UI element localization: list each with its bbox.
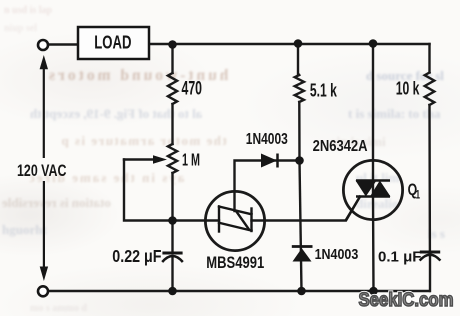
node junction dot (5.1k top): [294, 39, 303, 48]
wire column4 (rail through 5.1 k, D2, to bottom rail): [297, 44, 299, 75]
wire column2 (470 to pot R2): [171, 104, 173, 144]
svg-text:5.1 k: 5.1 k: [310, 81, 337, 101]
SBS U1 symbol body: [219, 207, 252, 232]
node junction dot (triac column top): [369, 39, 378, 48]
wire column2 (pot to C1): [171, 173, 173, 251]
wire top rail (LOAD to top-right corner): [149, 43, 430, 45]
LOAD box: [78, 27, 149, 59]
capacitor C2 0.1 uF: [420, 252, 441, 261]
svg-text:10 k: 10 k: [396, 79, 420, 99]
svg-text:MBS4991: MBS4991: [206, 254, 264, 273]
resistor R3 5.1 k zigzag: [295, 75, 304, 102]
svg-text:0.22 μF: 0.22 μF: [112, 248, 161, 267]
resistor R1 470 zigzag: [168, 73, 177, 104]
wire diode D1 branch (corner above SBS to node C): [235, 161, 300, 212]
terminal (top input): [38, 40, 48, 50]
SBS U1 circle: [205, 191, 264, 250]
svg-text:1 M: 1 M: [182, 151, 200, 170]
wire column5 triac MT2 (top rail to triac): [372, 44, 374, 197]
wire bottom rail: [49, 290, 430, 292]
watermark SeekIC.com: [359, 289, 454, 310]
wire column2 lower (C1 to bottom rail): [171, 256, 173, 291]
node B junction dot (pot return): [168, 216, 177, 225]
resistor R4 10 k zigzag: [425, 73, 435, 106]
potentiometer wiper arm wire: [124, 158, 155, 160]
node junction dot (D2 bottom rail): [297, 287, 306, 296]
faint show-through page text (decorative background): [4, 5, 52, 16]
wire right column lower (C2 to bottom rail): [429, 255, 431, 291]
terminal (bottom input): [38, 286, 48, 296]
potentiometer wiper arrowhead: [153, 155, 167, 164]
triac Q1 circle: [343, 160, 402, 219]
wire SBS right terminal to triac gate: [252, 197, 361, 221]
capacitor C1 0.22 uF: [162, 253, 183, 262]
node C junction dot (D1/5.1k): [295, 156, 304, 165]
120 VAC span arrow (up head): [40, 55, 48, 158]
svg-text:SeekIC.com: SeekIC.com: [359, 289, 454, 310]
svg-text:0.1 μF: 0.1 μF: [378, 248, 421, 265]
diode D2 1N4003 (vertical): [292, 247, 313, 262]
node A junction dot (LOAD/470): [168, 40, 177, 49]
svg-text:1: 1: [416, 189, 421, 202]
node junction dot (triac bottom rail): [369, 287, 378, 296]
triac Q1 symbol (two triangles and bars): [356, 181, 391, 197]
svg-text:LOAD: LOAD: [94, 32, 131, 53]
wire node B to SBS left terminal: [173, 219, 220, 221]
diode D1 1N4003 (horizontal): [261, 154, 278, 168]
wire column5 triac MT1 (triac to bottom rail): [372, 197, 375, 292]
120 VAC span arrow (down head): [40, 181, 48, 281]
svg-text:1N4003: 1N4003: [315, 246, 359, 262]
wire right column upper (corner to 10 k): [428, 44, 430, 73]
wire node C down through D2 to bottom rail: [300, 161, 302, 292]
potentiometer R2 1 M zigzag: [168, 144, 177, 173]
svg-text:2N6342A: 2N6342A: [313, 138, 368, 156]
wire 5.1 k to node C: [298, 102, 301, 161]
svg-text:120 VAC: 120 VAC: [17, 162, 67, 180]
wire column2 top (rail to 470): [171, 44, 173, 73]
wire wiper return (down and right to node B): [124, 160, 173, 221]
triac Q1 gate wire: [346, 197, 361, 221]
wire right column (10 k to C2): [428, 105, 431, 250]
wire top rail left (terminal to LOAD): [49, 43, 79, 45]
node junction dot (C1 bottom rail): [168, 287, 177, 296]
svg-text:470: 470: [182, 78, 203, 99]
svg-text:1N4003: 1N4003: [246, 129, 288, 147]
